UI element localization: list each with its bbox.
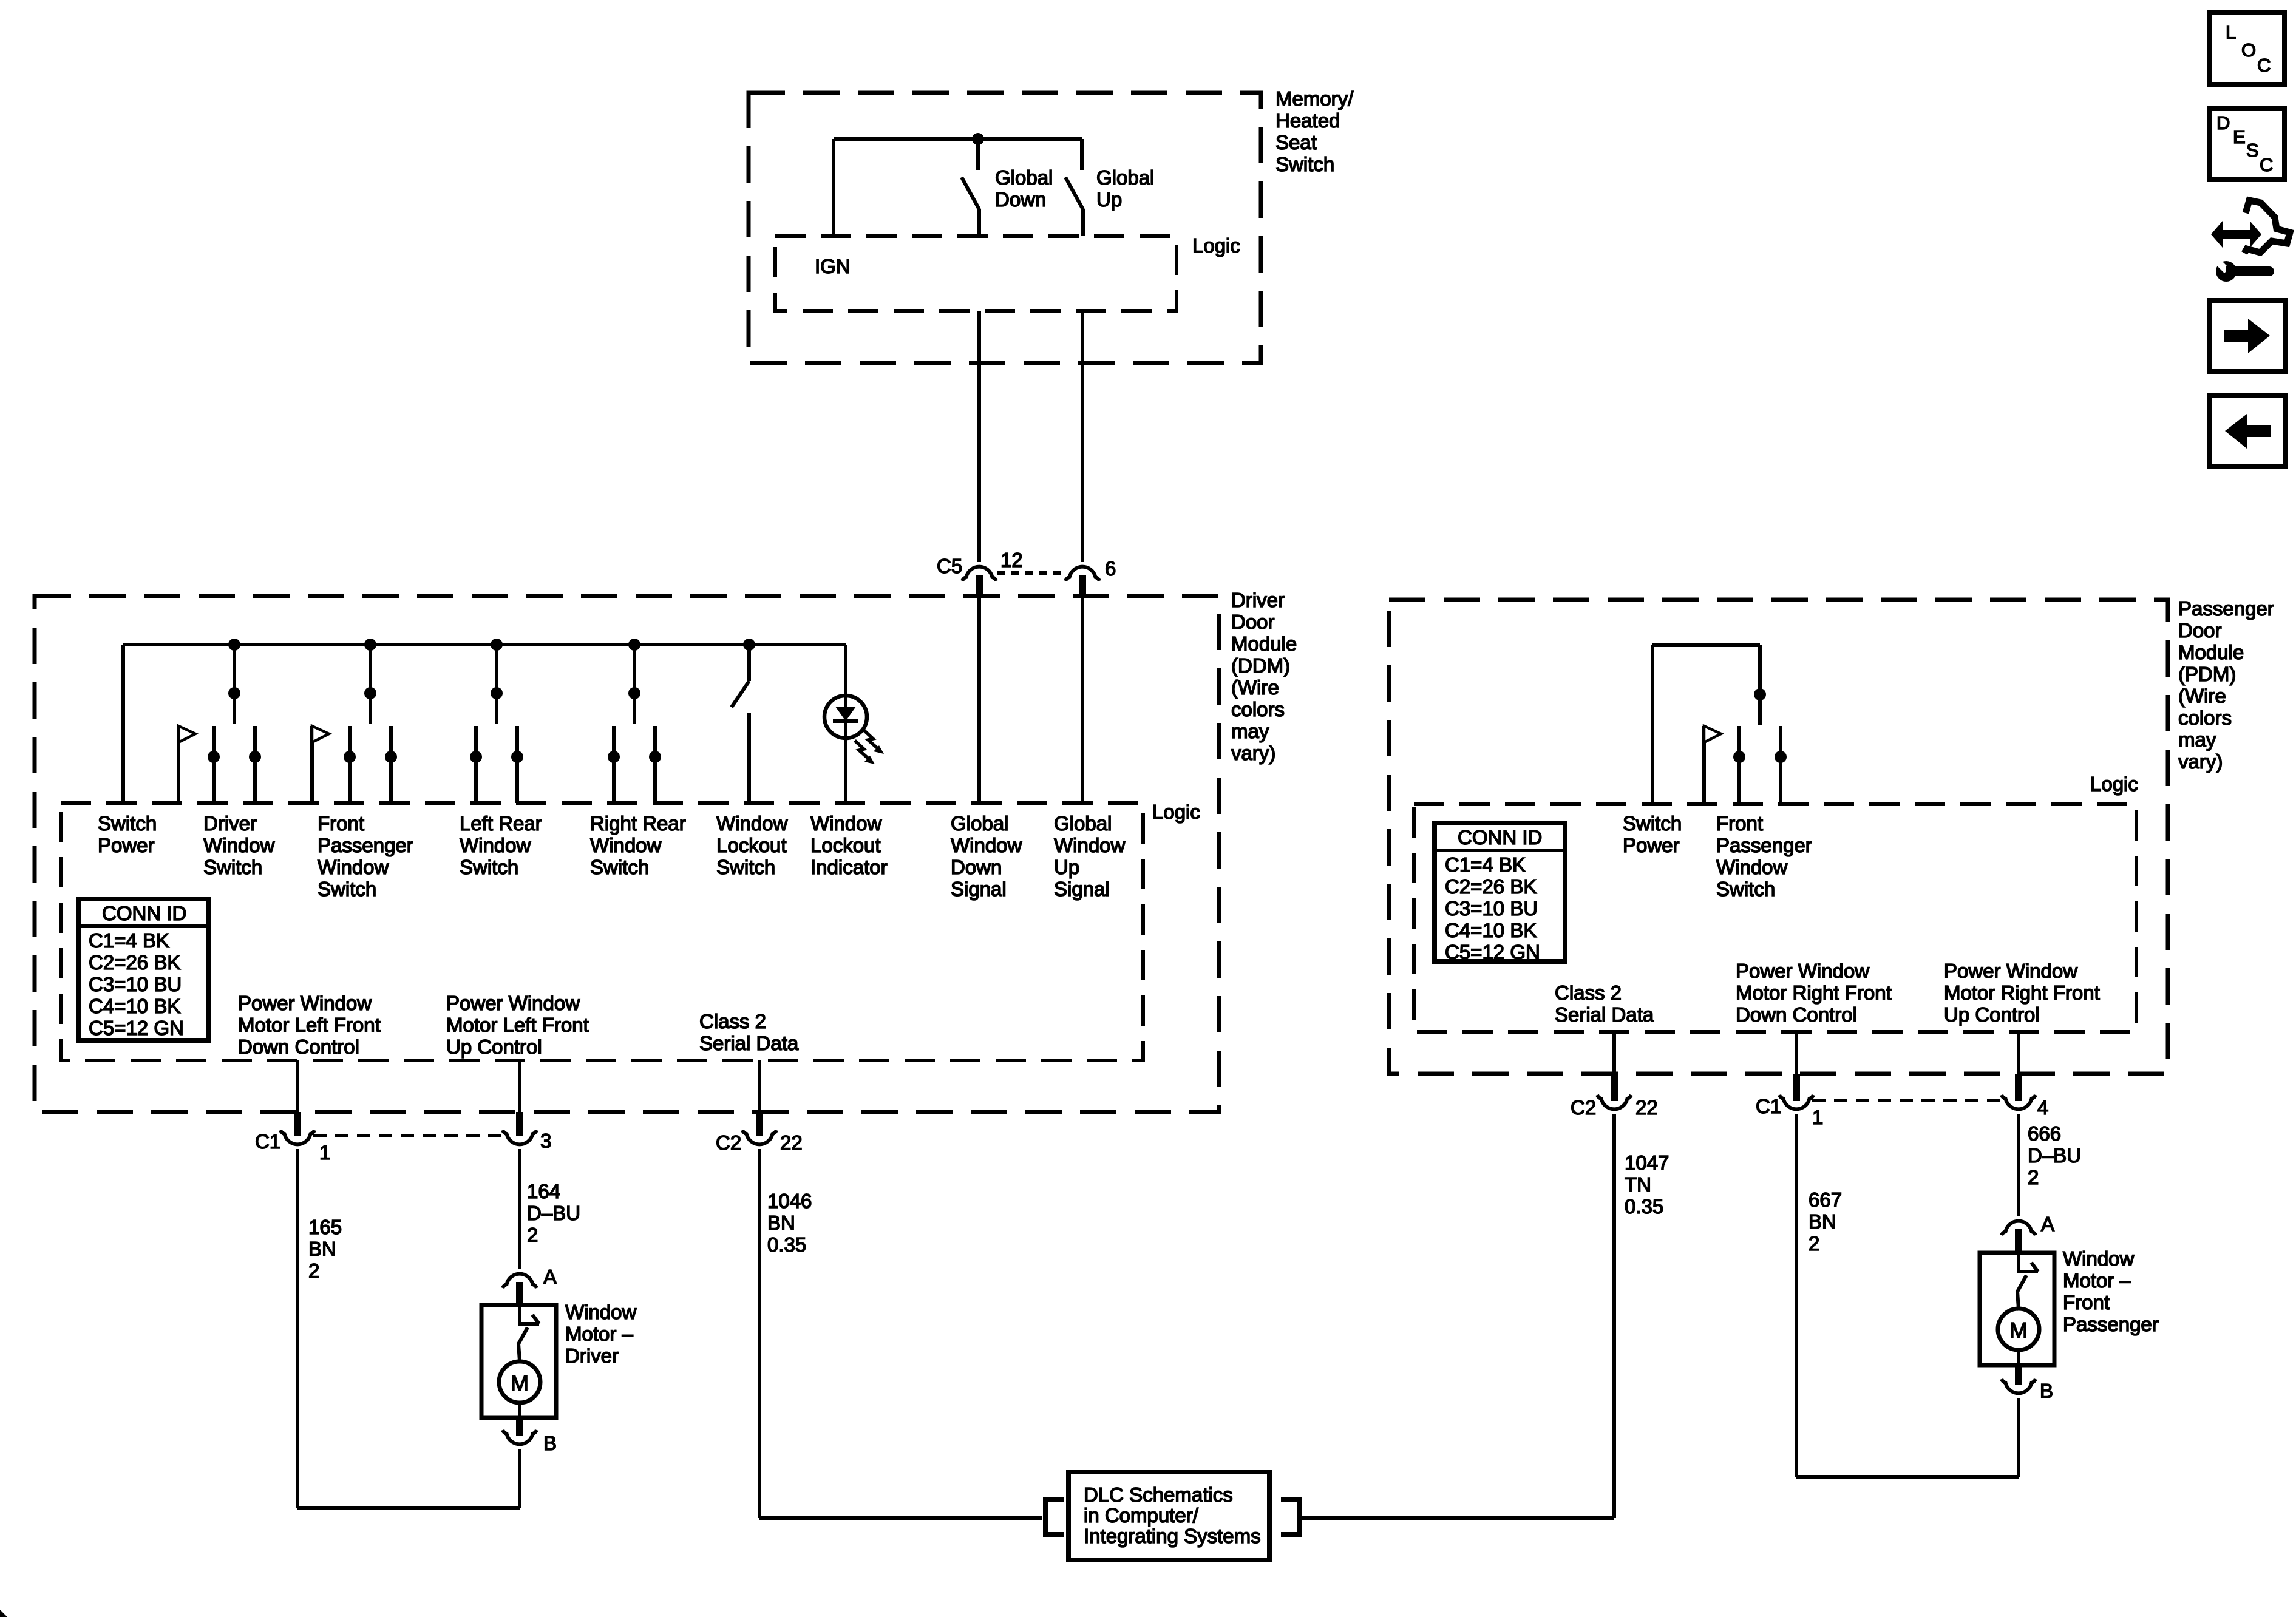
wire: class 2 serial out of logic (758, 1060, 761, 1112)
connector C1 boundary dashes (313, 1134, 504, 1137)
wire: motor to box bottom (passenger) (2017, 1350, 2020, 1365)
wire: B to return (driver) (518, 1449, 521, 1508)
svg-text:TN: TN (1625, 1173, 1651, 1196)
connector C1 pin 1 (PDM) (1779, 1095, 1813, 1109)
svg-text:Up: Up (1054, 856, 1079, 878)
connector C2 pin 22 stub (756, 1112, 763, 1136)
svg-text:CONN ID: CONN ID (102, 902, 186, 924)
right rear window switch right contact dot (649, 751, 661, 763)
svg-text:C: C (2260, 154, 2273, 175)
svg-text:C2: C2 (716, 1131, 741, 1154)
wire: PDM switch power top (1652, 643, 1760, 647)
svg-text:Integrating Systems: Integrating Systems (1084, 1525, 1261, 1547)
svg-text:C1=4 BK: C1=4 BK (89, 929, 169, 952)
svg-text:Down: Down (995, 188, 1046, 211)
wire: PDM switch pole (1758, 645, 1762, 725)
front passenger window switch flag (312, 726, 329, 742)
svg-text:2: 2 (527, 1224, 538, 1246)
PDM switch flag (1704, 726, 1721, 742)
connector C2 pin 22 (PDM) (1597, 1095, 1631, 1109)
svg-text:E: E (2233, 126, 2246, 147)
svg-text:667: 667 (1809, 1188, 1842, 1211)
driver window switch right contact dot (249, 751, 261, 763)
svg-text:Window: Window (810, 812, 882, 835)
svg-text:Lockout: Lockout (716, 834, 787, 856)
svg-text:Module: Module (2178, 641, 2244, 663)
svg-text:S: S (2246, 140, 2259, 161)
svg-text:Window: Window (460, 834, 531, 856)
front passenger window switch flag pole (310, 726, 314, 803)
svg-text:Left Rear: Left Rear (460, 812, 542, 835)
wire: lockout switch stub (747, 645, 751, 681)
svg-text:3: 3 (540, 1130, 551, 1152)
front passenger window switch right contact (389, 726, 393, 803)
svg-text:22: 22 (780, 1131, 803, 1154)
box: DLC Schematics in Computer/Integrating Systems (1068, 1472, 1269, 1560)
svg-text:BN: BN (1809, 1210, 1836, 1233)
connector C1 pin 1 stub (PDM) (1793, 1074, 1800, 1101)
svg-text:C2=26 BK: C2=26 BK (1445, 875, 1537, 898)
wire: Global Up contact (1081, 209, 1085, 236)
logic box inside seat switch (775, 236, 1177, 311)
svg-text:Global: Global (951, 812, 1008, 835)
svg-text:Signal: Signal (1054, 878, 1110, 900)
svg-text:Global: Global (995, 166, 1053, 189)
PDM switch flag pole (1702, 726, 1706, 804)
svg-text:Seat: Seat (1275, 131, 1317, 154)
connector B (driver motor) (503, 1430, 537, 1444)
node: seat switch bus junction (972, 133, 984, 145)
wire 1047: up to PDM C2-22 (1612, 1114, 1616, 1518)
svg-text:Switch: Switch (1275, 153, 1334, 175)
right rear window switch right contact (653, 726, 657, 803)
icon: back arrow button (2210, 396, 2285, 467)
svg-text:C3=10 BU: C3=10 BU (1445, 897, 1538, 920)
switch blade: window lockout (732, 681, 749, 707)
right rear window switch left contact dot (608, 751, 620, 763)
svg-text:Power Window: Power Window (1944, 960, 2077, 982)
wire: global window up signal inside DDM (1081, 583, 1084, 803)
svg-text:O: O (2241, 39, 2256, 61)
svg-text:M: M (2009, 1318, 2028, 1343)
svg-text:Passenger: Passenger (2063, 1313, 2159, 1335)
svg-text:Indicator: Indicator (810, 856, 888, 878)
connector C5 boundary dashes (997, 571, 1065, 575)
front passenger window switch pole wire (369, 645, 372, 724)
svg-text:Window: Window (951, 834, 1022, 856)
driver window switch bus junction (228, 639, 240, 651)
motor M (passenger) (1998, 1309, 2039, 1350)
driver window switch right contact (253, 726, 257, 803)
svg-text:Switch: Switch (590, 856, 649, 878)
front passenger window switch right contact dot (385, 751, 397, 763)
connector B (passenger motor) (2002, 1379, 2036, 1393)
svg-text:Logic: Logic (1152, 801, 1200, 823)
icon: DESC button (2210, 109, 2284, 180)
svg-text:C3=10 BU: C3=10 BU (89, 973, 182, 995)
svg-text:M: M (511, 1371, 529, 1395)
connector C1 pin 4 (PDM) (2002, 1095, 2036, 1109)
svg-text:colors: colors (2178, 707, 2232, 729)
svg-text:22: 22 (1635, 1096, 1658, 1119)
front passenger window switch left contact dot (344, 751, 356, 763)
svg-text:vary): vary) (2178, 750, 2223, 773)
module box: Driver Door Module (DDM) (35, 596, 1219, 1112)
right rear window switch pole wire (633, 645, 636, 724)
svg-text:4: 4 (2037, 1096, 2048, 1119)
icon: LOC button (2210, 13, 2284, 84)
svg-text:666: 666 (2028, 1122, 2061, 1145)
svg-text:C4=10 BK: C4=10 BK (1445, 919, 1537, 941)
LED: window lockout indicator (824, 696, 867, 738)
wire: global down signal to C5-12 (977, 311, 981, 562)
svg-text:Switch: Switch (318, 878, 376, 900)
switch blade: Global Up (1065, 177, 1083, 209)
wire: IGN feed down to logic box (832, 139, 835, 236)
wire: Global Down contact (977, 209, 981, 236)
svg-text:Window: Window (565, 1301, 637, 1323)
wire 1046: C2-22 down (758, 1149, 761, 1518)
right rear window switch left contact (612, 726, 616, 803)
svg-text:Power Window: Power Window (446, 992, 580, 1014)
svg-text:Down Control: Down Control (1736, 1003, 1857, 1026)
wire 164: C1-3 down to motor A (518, 1149, 521, 1269)
left rear window switch right contact (515, 726, 519, 803)
wire: motor B return bottom (297, 1506, 520, 1510)
svg-text:Window: Window (590, 834, 662, 856)
node: lockout switch bus junction (743, 639, 755, 651)
driver window switch pole wire (233, 645, 236, 724)
svg-text:Global: Global (1054, 812, 1112, 835)
svg-text:(PDM): (PDM) (2178, 663, 2236, 685)
svg-text:C5: C5 (937, 555, 962, 577)
connector B stub (passenger motor) (2015, 1365, 2022, 1385)
svg-text:Logic: Logic (1192, 234, 1240, 257)
svg-text:C2=26 BK: C2=26 BK (89, 951, 180, 974)
svg-text:C1=4 BK: C1=4 BK (1445, 853, 1526, 876)
svg-text:0.35: 0.35 (1625, 1195, 1663, 1218)
wire 667: C1-1 down (1795, 1114, 1798, 1477)
svg-text:Heated: Heated (1275, 109, 1340, 132)
svg-text:colors: colors (1231, 698, 1285, 720)
connector C1 pin 1 (280, 1130, 314, 1144)
driver window switch flag (178, 726, 195, 742)
driver window switch flag pole (177, 726, 180, 803)
PDM switch left contact (1737, 726, 1741, 804)
right rear window switch bus junction (628, 639, 640, 651)
svg-text:Down Control: Down Control (238, 1036, 359, 1058)
svg-text:Window: Window (1716, 856, 1788, 878)
svg-text:165: 165 (308, 1216, 342, 1238)
svg-text:Module: Module (1231, 632, 1297, 655)
svg-text:may: may (2178, 728, 2216, 751)
wire: serial data from DLC to PDM (1302, 1516, 1614, 1520)
component box: window motor front passenger (1980, 1253, 2054, 1365)
svg-text:6: 6 (1105, 557, 1116, 580)
svg-text:Window: Window (1054, 834, 1126, 856)
svg-text:Door: Door (2178, 619, 2222, 642)
svg-text:Right Rear: Right Rear (590, 812, 686, 835)
component box: window motor driver (481, 1305, 556, 1418)
driver window switch left contact (212, 726, 216, 803)
wire: global window down signal inside DDM (977, 583, 981, 803)
svg-text:C4=10 BK: C4=10 BK (89, 995, 180, 1017)
icon: next arrow button (2210, 300, 2285, 371)
svg-text:C1: C1 (1756, 1095, 1781, 1117)
svg-text:C5=12 GN: C5=12 GN (89, 1017, 184, 1039)
svg-text:DLC Schematics: DLC Schematics (1084, 1483, 1233, 1506)
PDM switch right contact dot (1775, 751, 1787, 763)
page corner mark (0, 1610, 7, 1617)
svg-text:vary): vary) (1231, 742, 1275, 764)
svg-text:1: 1 (319, 1141, 330, 1164)
svg-text:(Wire: (Wire (2178, 685, 2226, 707)
svg-text:(Wire: (Wire (1231, 676, 1279, 699)
PDM switch right contact (1779, 726, 1782, 804)
node: PDM switch pole junction (1754, 688, 1766, 700)
svg-text:C: C (2257, 55, 2271, 76)
connector C2 pin 22 stub (PDM) (1611, 1074, 1618, 1101)
svg-text:BN: BN (308, 1238, 336, 1260)
svg-text:Motor –: Motor – (565, 1323, 634, 1345)
svg-text:C5=12 GN: C5=12 GN (1445, 941, 1540, 963)
connector C5 pin 6 (1065, 567, 1099, 581)
wire: passenger motor B return (1796, 1475, 2019, 1479)
svg-text:B: B (543, 1432, 557, 1454)
svg-text:A: A (2041, 1213, 2054, 1235)
svg-text:B: B (2040, 1380, 2053, 1402)
svg-text:Class 2: Class 2 (699, 1010, 766, 1032)
connector C1 pin 4 stub (PDM) (2015, 1074, 2022, 1101)
svg-text:D: D (2216, 112, 2230, 134)
wire: PDM down control out of logic (1795, 1032, 1798, 1074)
svg-text:Window: Window (2063, 1247, 2135, 1270)
svg-text:C2: C2 (1571, 1096, 1596, 1119)
svg-text:Memory/: Memory/ (1275, 87, 1354, 110)
connector C1 pin 1 stub (294, 1112, 301, 1136)
front passenger window switch bus junction (364, 639, 376, 651)
wire: PDM serial out of logic (1612, 1032, 1616, 1074)
svg-text:164: 164 (527, 1180, 560, 1202)
svg-text:1047: 1047 (1625, 1151, 1669, 1174)
svg-text:Switch: Switch (98, 812, 157, 835)
connector A stub (driver motor) (516, 1282, 523, 1306)
svg-text:Door: Door (1231, 611, 1275, 633)
left rear window switch left contact dot (470, 751, 482, 763)
logic box inside DDM (61, 803, 1143, 1060)
connector C1 boundary dashes (PDM) (1812, 1099, 2003, 1102)
wire: DDM switch power bus (123, 643, 846, 646)
svg-text:Driver: Driver (1231, 589, 1285, 611)
wire 165: C1-1 down (296, 1149, 299, 1508)
svg-text:Driver: Driver (565, 1344, 619, 1367)
off-page bracket left (DLC) (1045, 1500, 1064, 1534)
connector B stub (driver motor) (516, 1418, 523, 1436)
switch blade: Global Down (962, 177, 979, 209)
module box: Passenger Door Module (PDM) (1389, 600, 2168, 1074)
svg-text:2: 2 (308, 1259, 319, 1282)
svg-text:Power Window: Power Window (1736, 960, 1869, 982)
svg-text:Motor –: Motor – (2063, 1269, 2131, 1292)
svg-text:Motor Left Front: Motor Left Front (446, 1014, 589, 1036)
svg-text:Passenger: Passenger (318, 834, 413, 856)
svg-text:BN: BN (767, 1212, 795, 1234)
connector C1 pin 3 (503, 1130, 537, 1144)
wire: lockout indicator feed (844, 645, 847, 803)
logic box inside PDM (1414, 804, 2136, 1032)
front passenger window switch pole junction (364, 687, 376, 699)
svg-text:A: A (543, 1266, 557, 1288)
connector A stub (passenger motor) (2015, 1229, 2022, 1254)
svg-text:Up Control: Up Control (1944, 1003, 2040, 1026)
wire: switch power drop (121, 645, 125, 803)
svg-text:Driver: Driver (203, 812, 257, 835)
wire: seat switch top bus (834, 137, 1082, 141)
motor M (driver) (499, 1361, 540, 1403)
connector C1 pin 3 stub (516, 1112, 523, 1136)
svg-text:Switch: Switch (460, 856, 518, 878)
svg-text:1046: 1046 (767, 1190, 812, 1212)
LED light arrows (864, 730, 879, 750)
off-page bracket right (DLC) (1281, 1500, 1299, 1534)
svg-text:Power Window: Power Window (238, 992, 372, 1014)
svg-text:in Computer/: in Computer/ (1084, 1504, 1199, 1527)
svg-text:Passenger: Passenger (1716, 834, 1812, 856)
left rear window switch bus junction (491, 639, 503, 651)
svg-text:Switch: Switch (716, 856, 775, 878)
svg-text:IGN: IGN (815, 255, 851, 277)
wire: B to return (passenger) (2017, 1398, 2020, 1477)
svg-text:Power: Power (98, 834, 155, 856)
wire: PDM switch power drop (1651, 645, 1654, 804)
wire: motor to box bottom (driver) (518, 1403, 521, 1418)
left rear window switch left contact (474, 726, 478, 803)
svg-text:Switch: Switch (1623, 812, 1682, 835)
connector C2 pin 22 (742, 1130, 776, 1144)
svg-text:2: 2 (2028, 1166, 2039, 1188)
svg-text:2: 2 (1809, 1232, 1819, 1255)
svg-text:Lockout: Lockout (810, 834, 881, 856)
CONN ID table (PDM) (1435, 823, 1565, 961)
wire: lockout switch contact (747, 713, 751, 803)
wire: Global Up switch stub (1080, 139, 1084, 170)
svg-text:Front: Front (1716, 812, 1763, 835)
wire: down control out of logic (296, 1060, 299, 1112)
svg-text:Window: Window (716, 812, 788, 835)
svg-text:(DDM): (DDM) (1231, 654, 1290, 677)
svg-text:Logic: Logic (2090, 773, 2138, 795)
svg-text:Switch: Switch (203, 856, 262, 878)
svg-text:0.35: 0.35 (767, 1233, 806, 1256)
svg-text:Window: Window (203, 834, 275, 856)
connector C5 pin 12 (962, 567, 996, 581)
connector A (passenger motor) (2002, 1221, 2036, 1235)
wire: PDM up control out of logic (2017, 1032, 2020, 1074)
icon: component view (car + wrench) (2220, 230, 2252, 239)
circuit breaker (driver motor) (520, 1305, 539, 1324)
svg-text:Serial Data: Serial Data (1555, 1003, 1654, 1026)
svg-text:Motor Right Front: Motor Right Front (1736, 981, 1892, 1004)
svg-text:Front: Front (318, 812, 364, 835)
front passenger window switch left contact (348, 726, 352, 803)
svg-text:Window: Window (318, 856, 389, 878)
wire: global up signal to C5-6 (1081, 311, 1084, 562)
circuit breaker (passenger motor) (2019, 1253, 2038, 1272)
left rear window switch right contact dot (511, 751, 523, 763)
svg-text:Up: Up (1096, 188, 1122, 211)
right rear window switch pole junction (628, 687, 640, 699)
module box: Memory/Heated Seat Switch (749, 93, 1261, 363)
svg-text:Serial Data: Serial Data (699, 1032, 799, 1054)
wire: Global Down switch stub (976, 139, 980, 170)
svg-text:Global: Global (1096, 166, 1154, 189)
connector C5 pin 12 stub (976, 575, 983, 598)
svg-text:Motor Right Front: Motor Right Front (1944, 981, 2100, 1004)
wire 666: C1-4 down to motor A (2017, 1114, 2020, 1216)
wire: up control out of logic (518, 1060, 521, 1112)
svg-text:Power: Power (1623, 834, 1680, 856)
svg-text:12: 12 (1000, 549, 1023, 571)
svg-text:may: may (1231, 720, 1269, 742)
driver window switch left contact dot (208, 751, 220, 763)
svg-text:Motor Left Front: Motor Left Front (238, 1014, 381, 1036)
svg-text:CONN ID: CONN ID (1458, 826, 1542, 849)
connector A (driver motor) (503, 1274, 537, 1288)
CONN ID table (DDM) (79, 899, 209, 1040)
svg-text:L: L (2226, 22, 2236, 43)
svg-text:D–BU: D–BU (2028, 1144, 2081, 1167)
svg-text:Front: Front (2063, 1291, 2110, 1314)
svg-text:D–BU: D–BU (527, 1202, 580, 1224)
PDM switch left contact dot (1733, 751, 1745, 763)
connector C5 pin 6 stub (1079, 575, 1086, 598)
svg-text:1: 1 (1812, 1106, 1823, 1128)
svg-text:Down: Down (951, 856, 1002, 878)
svg-text:C1: C1 (255, 1130, 280, 1153)
svg-text:Up Control: Up Control (446, 1036, 542, 1058)
left rear window switch pole junction (491, 687, 503, 699)
svg-text:Signal: Signal (951, 878, 1007, 900)
svg-text:Switch: Switch (1716, 878, 1775, 900)
wire: serial data to DLC box (759, 1516, 1042, 1520)
svg-text:Class 2: Class 2 (1555, 981, 1622, 1004)
svg-text:Passenger: Passenger (2178, 597, 2274, 620)
driver window switch pole junction (228, 687, 240, 699)
left rear window switch pole wire (495, 645, 498, 724)
